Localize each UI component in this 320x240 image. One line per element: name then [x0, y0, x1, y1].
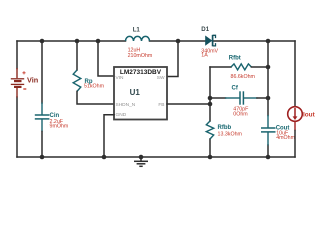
svg-text:L1: L1: [133, 26, 141, 33]
svg-text:210mOhm: 210mOhm: [128, 53, 153, 59]
battery V1 (Vin source): [11, 68, 26, 98]
svg-text:FB: FB: [158, 102, 164, 108]
node bottom rail / GND: [102, 155, 107, 160]
wire top rail right segment (D1 to right corner): [213, 40, 296, 42]
node Cf left: [208, 96, 213, 101]
svg-text:Cin: Cin: [50, 113, 60, 119]
diode D1 (schottky): [205, 35, 215, 46]
wire SW pin: [167, 41, 178, 77]
wire FB pin: [167, 103, 210, 105]
resistor Rp: [73, 41, 114, 104]
resistor Rfbb: [206, 121, 213, 139]
op-amp U1 (IC LM27313DBV box): [114, 67, 167, 120]
svg-text:0Ohm: 0Ohm: [233, 112, 248, 118]
node Vout top: [266, 39, 271, 44]
node bottom rail / Cin: [40, 155, 45, 160]
resistor Rfbt: [210, 64, 268, 70]
svg-text:Rfbt: Rfbt: [229, 56, 241, 62]
capacitor Cin: [35, 41, 50, 157]
node Cf right: [266, 96, 271, 101]
wire right edge bottom: [294, 131, 296, 158]
node top rail / VIN: [96, 39, 101, 44]
svg-text:13.3kOhm: 13.3kOhm: [218, 131, 243, 137]
svg-text:86.6kOhm: 86.6kOhm: [231, 74, 256, 80]
node bottom rail / Rfbb: [208, 155, 213, 160]
svg-text:Iout: Iout: [303, 111, 316, 118]
wire bottom rail: [17, 156, 295, 158]
node bottom rail / ground: [139, 155, 144, 160]
svg-text:4mOhm: 4mOhm: [276, 135, 295, 141]
capacitor Cf: [210, 91, 268, 104]
wire top rail middle segment (L1 to D1): [150, 40, 206, 42]
svg-text:Cf: Cf: [232, 85, 239, 91]
wire left edge top (rail to battery): [16, 41, 18, 69]
svg-text:Vin: Vin: [27, 76, 38, 85]
wire VIN pin: [98, 41, 114, 76]
wire GND pin: [104, 115, 114, 157]
svg-text:51kOhm: 51kOhm: [84, 84, 105, 90]
wire right feedback vertical bottom: [267, 145, 269, 157]
node Rfbt right: [266, 65, 271, 70]
current source Iout: [288, 107, 303, 131]
wire left edge bottom (battery to bottom rail): [16, 97, 18, 157]
node FB: [208, 102, 213, 107]
wire feedback left vertical: [209, 67, 211, 121]
node SW (L1/D1 junction): [176, 39, 181, 44]
wire right feedback vertical top: [267, 41, 269, 116]
svg-text:SW: SW: [157, 75, 165, 81]
node top rail / Rp: [75, 39, 80, 44]
svg-text:9mOhm: 9mOhm: [50, 123, 69, 129]
svg-text:D1: D1: [201, 26, 209, 33]
node bottom rail / Cout: [266, 155, 271, 160]
svg-text:SHDN_N: SHDN_N: [116, 102, 136, 108]
svg-text:GND: GND: [116, 112, 127, 118]
wire top rail left segment: [17, 40, 126, 42]
svg-text:1A: 1A: [201, 53, 208, 59]
ground: [134, 157, 148, 166]
svg-text:U1: U1: [130, 88, 141, 97]
capacitor Cout: [261, 115, 276, 146]
wire right edge top: [294, 41, 296, 107]
node top rail / Cin: [40, 39, 45, 44]
inductor L1: [126, 36, 150, 41]
svg-text:VIN: VIN: [116, 75, 125, 81]
svg-text:LM27313DBV: LM27313DBV: [120, 69, 162, 76]
svg-text:Rfbb: Rfbb: [218, 125, 232, 131]
